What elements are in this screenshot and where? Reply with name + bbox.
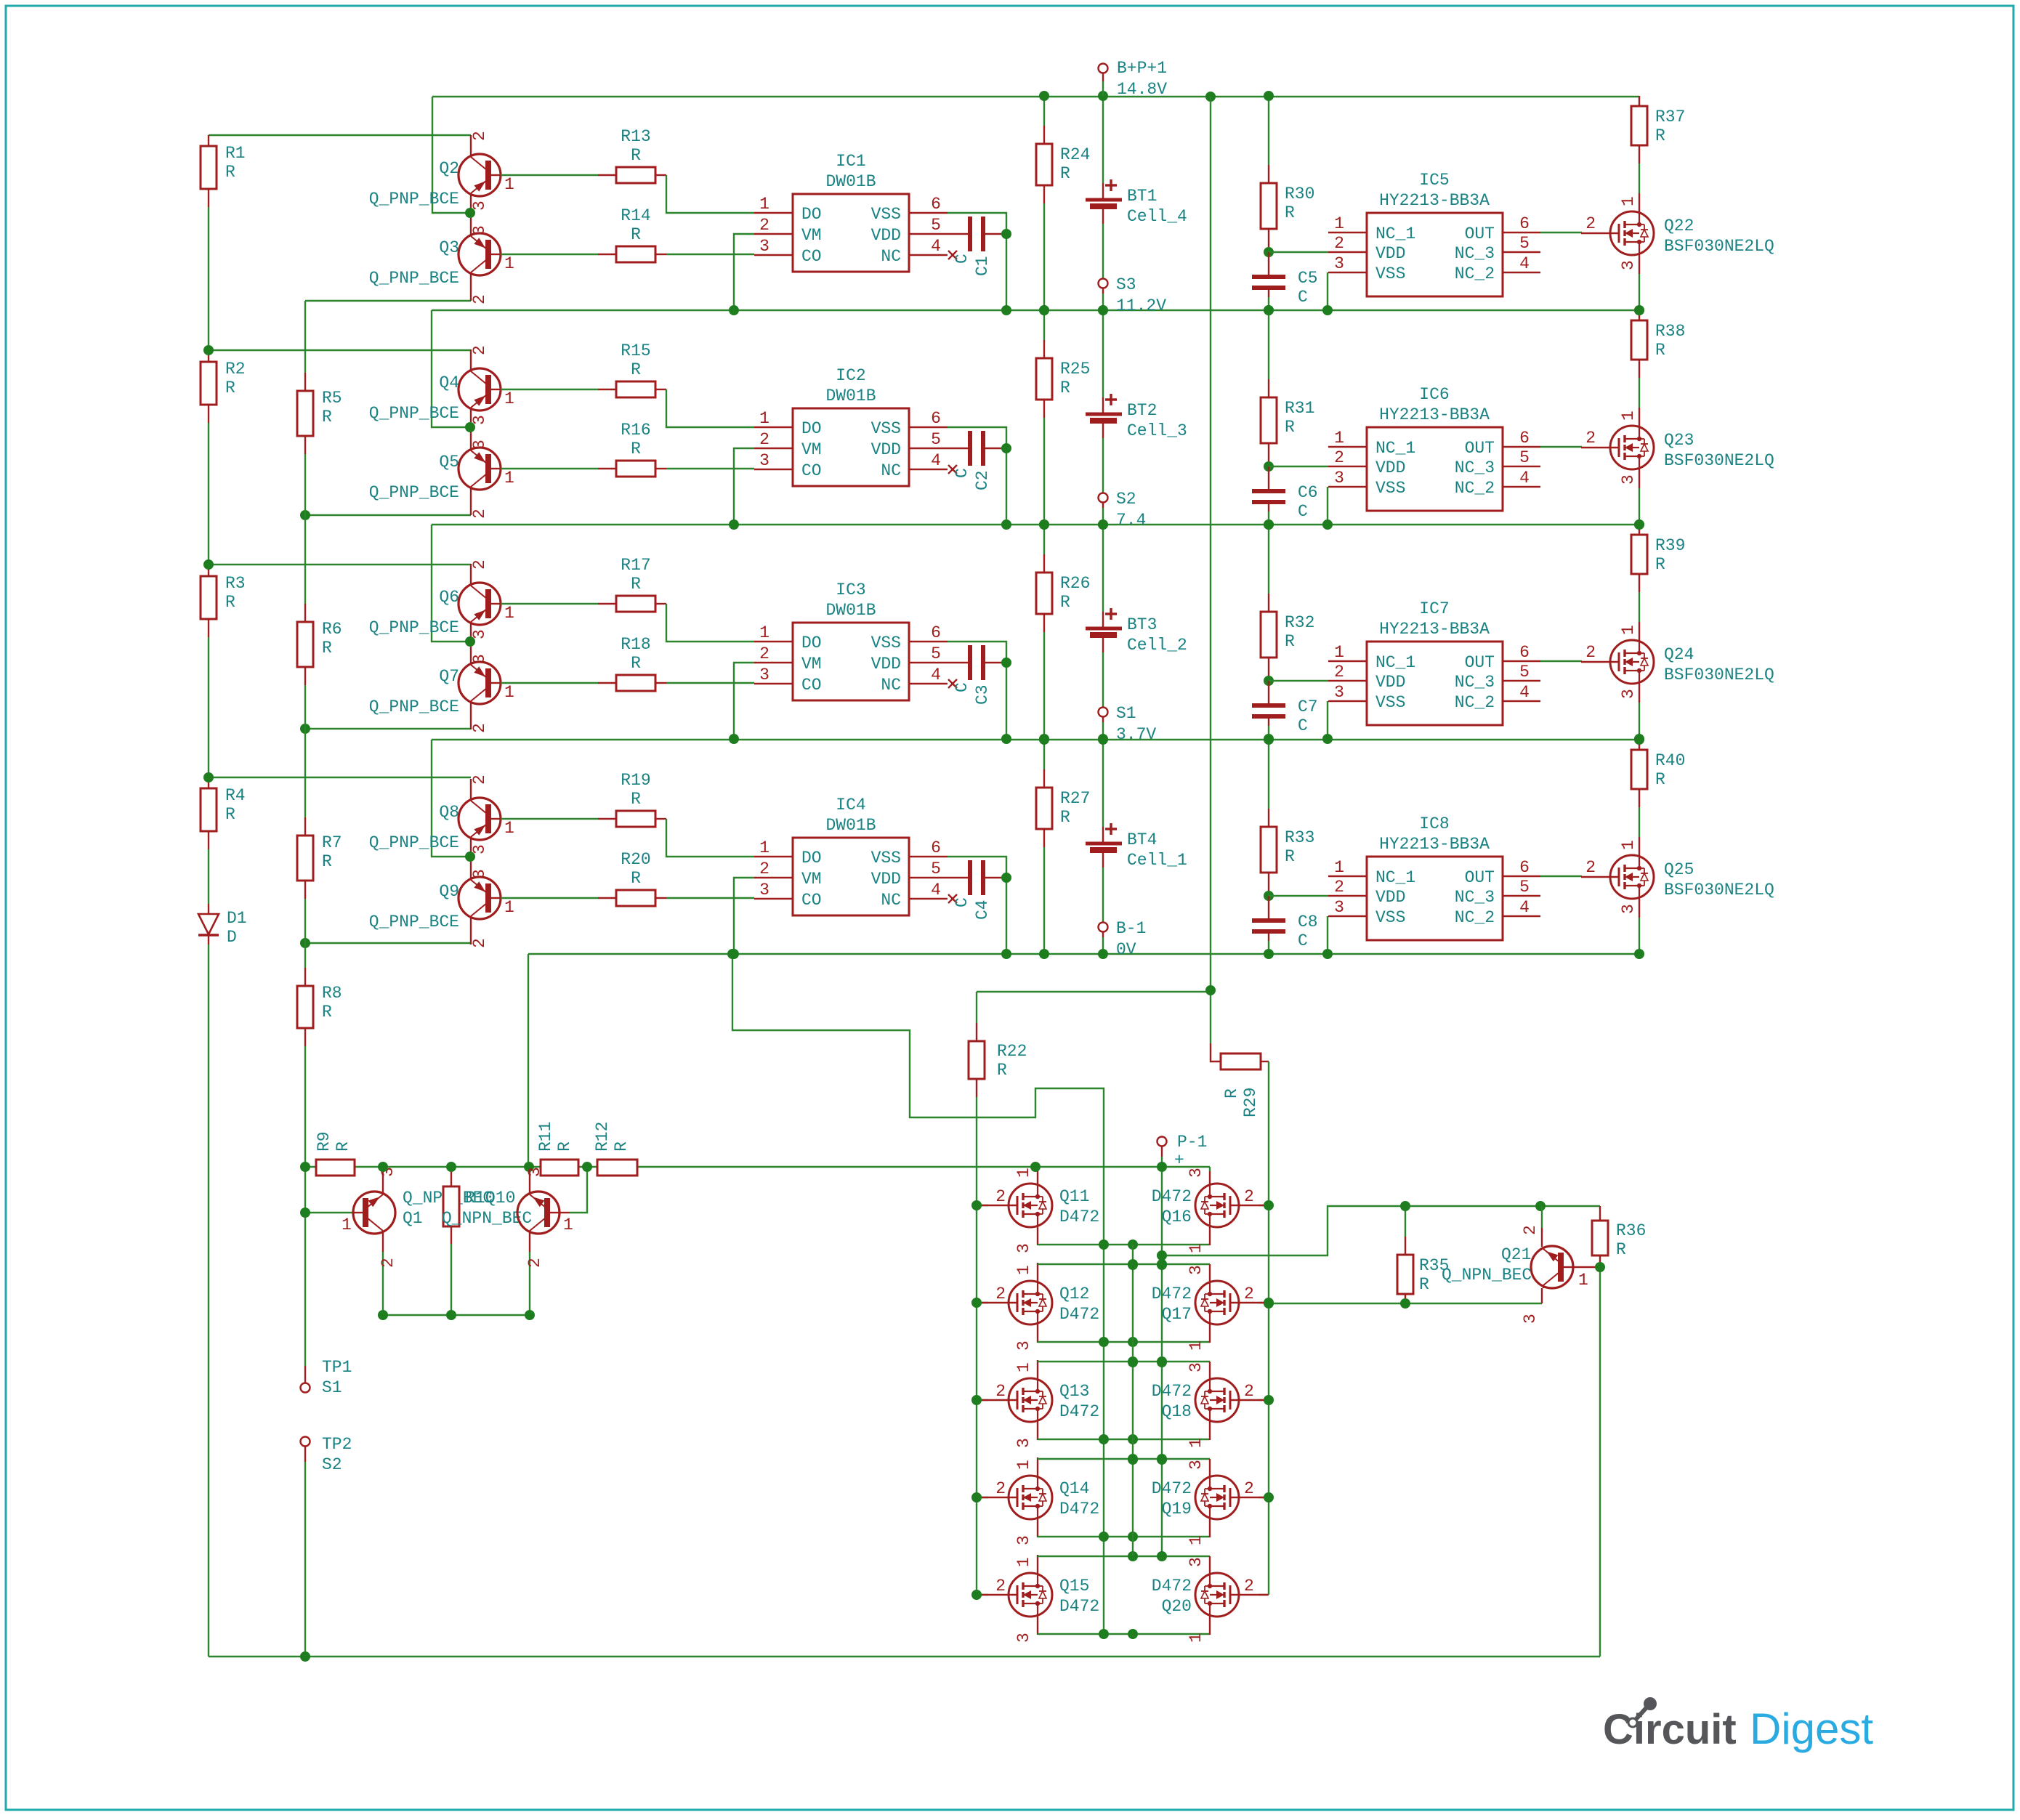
svg-text:R9: R9: [315, 1131, 334, 1152]
svg-text:NC: NC: [881, 247, 901, 266]
wire IC3 VSS to rail riser: [948, 642, 1006, 739]
svg-text:D472: D472: [1152, 1479, 1192, 1498]
svg-text:DW01B: DW01B: [825, 816, 876, 835]
svg-text:R: R: [1655, 126, 1665, 145]
svg-text:Q25: Q25: [1664, 860, 1694, 879]
svg-text:B-1: B-1: [1116, 919, 1146, 938]
capacitor C1: [948, 233, 970, 235]
resistor R38: [1631, 320, 1647, 360]
junction R39 top rail: [1634, 519, 1644, 530]
svg-text:CO: CO: [801, 461, 822, 480]
wire R5 leads: [304, 301, 306, 373]
svg-text:3: 3: [1187, 1557, 1205, 1567]
wire R31 leads: [1268, 310, 1269, 379]
wire Q9 base to R20: [501, 897, 598, 899]
svg-text:HY2213-BB3A: HY2213-BB3A: [1379, 191, 1490, 210]
svg-text:3: 3: [1187, 1460, 1205, 1470]
resistor R32: [1261, 612, 1277, 658]
junction Q11 drain bus: [1030, 1162, 1041, 1172]
junction B- riser at bus: [524, 1162, 534, 1172]
junction R1/R2 feed: [203, 345, 214, 355]
svg-text:3: 3: [1014, 1438, 1033, 1448]
ic IC6 HY2213-BB3A: [1367, 427, 1503, 511]
svg-text:D472: D472: [1152, 1577, 1192, 1595]
junction gate bus Q14: [971, 1492, 982, 1502]
junction row bottom line: [1099, 1434, 1109, 1444]
junction IC7 VSS rail: [1322, 734, 1333, 744]
svg-text:VDD: VDD: [1375, 244, 1405, 263]
svg-text:R: R: [322, 408, 332, 426]
junction x1599 drive tap: [1157, 1250, 1167, 1261]
svg-text:14.8V: 14.8V: [1117, 80, 1167, 99]
junction gate bus Q19: [1264, 1492, 1274, 1502]
resistor R4: [201, 788, 217, 831]
junction B-1 rail: [1098, 949, 1108, 959]
svg-text:3: 3: [470, 654, 489, 664]
svg-text:3: 3: [1521, 1314, 1540, 1324]
svg-text:D472: D472: [1059, 1305, 1099, 1324]
svg-text:1: 1: [1578, 1271, 1588, 1290]
junction R5/Q5 collector: [300, 510, 310, 520]
junction row top line: [1128, 1454, 1138, 1464]
svg-text:Q8: Q8: [439, 803, 459, 822]
svg-text:+: +: [1174, 1151, 1184, 1170]
resistor R35: [1405, 1206, 1406, 1237]
svg-text:Q5: Q5: [439, 453, 459, 472]
wire B-1 rail: [528, 953, 1639, 955]
no-connect IC1 NC: [948, 251, 957, 259]
junction R25 bottom: [1039, 519, 1049, 530]
svg-text:2: 2: [1585, 214, 1596, 233]
wire R26 leads: [1043, 525, 1045, 554]
svg-text:R: R: [322, 639, 332, 658]
svg-text:Digest: Digest: [1750, 1704, 1873, 1753]
resistor R11: [541, 1160, 578, 1176]
transistor Q1: [353, 1170, 395, 1234]
svg-text:Q4: Q4: [439, 373, 459, 392]
svg-text:VDD: VDD: [871, 655, 901, 674]
svg-text:1: 1: [504, 175, 514, 194]
junction IC5 VSS rail: [1322, 305, 1333, 315]
svg-text:R38: R38: [1655, 322, 1685, 341]
junction C7 rail: [1264, 734, 1274, 744]
junction R25 top: [1039, 305, 1049, 315]
svg-text:VM: VM: [801, 655, 822, 674]
junction R6/Q7 collector: [300, 724, 310, 734]
wire row line y1847 (Q12 source / Q17 bottom): [1037, 1324, 1038, 1343]
junction row bottom line: [1099, 1239, 1109, 1250]
svg-text:Q21: Q21: [1501, 1245, 1531, 1264]
svg-text:R: R: [1285, 418, 1295, 437]
junction R32 top rail: [1264, 519, 1274, 530]
svg-text:1: 1: [504, 683, 514, 702]
wire R24 leads: [1043, 96, 1045, 126]
svg-text:Q2: Q2: [439, 159, 459, 178]
junction R2/R3 feed: [203, 559, 214, 570]
svg-text:Q12: Q12: [1059, 1285, 1089, 1303]
junction VSS rail: [1001, 519, 1011, 530]
resistor R27: [1036, 788, 1052, 829]
transistor Q19: [1259, 1497, 1269, 1498]
svg-text:4: 4: [931, 666, 941, 684]
svg-text:2: 2: [1585, 643, 1596, 662]
resistor R1: [201, 146, 217, 189]
svg-text:NC_2: NC_2: [1455, 479, 1495, 498]
svg-text:VSS: VSS: [1375, 693, 1405, 712]
svg-text:6: 6: [1519, 214, 1530, 233]
wire Q7 base to R18: [501, 682, 598, 684]
svg-text:2: 2: [1244, 1285, 1254, 1303]
junction VM rail: [729, 305, 739, 315]
wire B- to source bus path: [732, 954, 1104, 1634]
svg-text:1: 1: [504, 469, 514, 488]
junction R10 top: [446, 1162, 456, 1172]
transistor Q5: [458, 427, 501, 515]
diode D1: [208, 904, 209, 914]
wire gate bus right column: [1268, 1061, 1269, 1595]
wire R1 leads: [208, 135, 209, 146]
svg-text:R8: R8: [322, 984, 342, 1003]
svg-text:CO: CO: [801, 891, 822, 910]
svg-text:R36: R36: [1616, 1221, 1646, 1240]
svg-text:R: R: [1222, 1088, 1241, 1099]
transistor Q2: [458, 135, 501, 213]
svg-text:Cell_3: Cell_3: [1127, 421, 1187, 440]
svg-text:NC_1: NC_1: [1375, 225, 1415, 243]
svg-text:Q_PNP_BCE: Q_PNP_BCE: [369, 833, 459, 852]
wire S2 left drop to emitter node: [432, 525, 470, 642]
svg-text:1: 1: [1334, 643, 1344, 662]
wire IC2 VM to rail: [734, 448, 754, 525]
resistor R30: [1261, 183, 1277, 229]
wire row line y2115 (Q14 source / Q19 bottom): [1037, 1519, 1038, 1537]
svg-text:1: 1: [759, 623, 769, 642]
ic IC8 HY2213-BB3A: [1367, 857, 1503, 940]
junction Q25 source rail: [1634, 949, 1644, 959]
battery BT1: [1102, 96, 1104, 183]
svg-text:R: R: [225, 379, 235, 397]
svg-text:VM: VM: [801, 870, 822, 889]
wire row line y1740 (Q12 drain / Q17 top): [1037, 1263, 1038, 1281]
junction R33 top rail: [1264, 735, 1274, 745]
svg-text:C: C: [1298, 502, 1308, 521]
wire row line y2249 (Q15 source / Q20 bottom): [1037, 1617, 1038, 1635]
resistor R16: [616, 461, 655, 477]
node S2: [1099, 493, 1108, 503]
svg-text:Q6: Q6: [439, 588, 459, 607]
wire feed line row4 (R4 top to Q8 collector): [209, 777, 471, 778]
svg-text:NC_1: NC_1: [1375, 868, 1415, 887]
wire IC1 VM to rail: [734, 234, 754, 310]
svg-text:VDD: VDD: [1375, 888, 1405, 907]
svg-text:R27: R27: [1060, 789, 1090, 808]
junction S3 rail: [1098, 305, 1108, 315]
svg-text:D: D: [227, 928, 237, 947]
battery BT3: [1102, 525, 1104, 612]
wire IC7 OUT to Q24 gate: [1540, 660, 1582, 662]
svg-text:DO: DO: [801, 205, 822, 224]
svg-text:BT1: BT1: [1127, 187, 1157, 206]
junction gate line R35: [1400, 1298, 1410, 1309]
svg-text:2: 2: [759, 644, 769, 663]
svg-text:2: 2: [470, 345, 489, 355]
junction R27 bottom: [1039, 949, 1049, 959]
ic IC2 DW01B: [793, 408, 909, 486]
svg-text:D472: D472: [1059, 1402, 1099, 1421]
wire S1 left drop to emitter node: [432, 740, 470, 857]
svg-text:4: 4: [1519, 469, 1530, 488]
svg-text:2: 2: [995, 1187, 1006, 1206]
wire Q21 base to R36 bottom and down: [1573, 1266, 1600, 1268]
junction row top line: [1128, 1259, 1138, 1269]
capacitor C5: [1268, 252, 1269, 275]
wire Q11 drain stub to bus: [1037, 1167, 1038, 1185]
junction row bottom line: [1099, 1337, 1109, 1347]
resistor R5: [297, 391, 313, 436]
svg-text:NC_3: NC_3: [1455, 888, 1495, 907]
svg-text:R22: R22: [997, 1042, 1027, 1061]
svg-text:S1: S1: [322, 1378, 342, 1397]
svg-text:C4: C4: [973, 899, 992, 920]
svg-text:R: R: [334, 1141, 352, 1152]
svg-text:OUT: OUT: [1465, 653, 1495, 672]
wire R14 to IC1 CO: [655, 254, 666, 255]
svg-text:DO: DO: [801, 849, 822, 867]
junction R24 top: [1039, 91, 1049, 101]
transistor Q17: [1259, 1302, 1269, 1303]
svg-text:IC6: IC6: [1419, 385, 1449, 404]
logo CircuitDigest: [1603, 1704, 1873, 1753]
svg-text:5: 5: [1519, 878, 1530, 897]
svg-text:S1: S1: [1116, 704, 1136, 723]
svg-text:2: 2: [1334, 878, 1344, 897]
svg-text:TP2: TP2: [322, 1435, 352, 1454]
svg-text:R20: R20: [621, 850, 650, 869]
transistor Q12: [977, 1302, 988, 1303]
wire x1666 riser from B+ down to R29: [1210, 97, 1211, 1043]
svg-text:1: 1: [504, 389, 514, 408]
junction C4 / VSS riser: [1001, 873, 1011, 883]
svg-text:C: C: [953, 468, 971, 478]
transistor Q10: [517, 1170, 559, 1234]
transistor Q25: [1639, 837, 1640, 856]
svg-text:R12: R12: [593, 1122, 612, 1152]
transistor Q11: [977, 1205, 988, 1206]
svg-text:D472: D472: [1059, 1500, 1099, 1518]
resistor R12: [597, 1160, 637, 1176]
svg-text:1: 1: [342, 1216, 352, 1234]
wire row line y1981 (Q13 source / Q18 bottom): [1037, 1422, 1038, 1440]
svg-text:VSS: VSS: [1375, 264, 1405, 283]
svg-text:VDD: VDD: [871, 440, 901, 459]
svg-text:2: 2: [470, 294, 489, 304]
svg-text:NC_2: NC_2: [1455, 264, 1495, 283]
svg-text:Q_PNP_BCE: Q_PNP_BCE: [369, 697, 459, 716]
wire Q3 base to R14: [501, 254, 598, 255]
svg-text:R11: R11: [536, 1122, 555, 1152]
no-connect IC3 NC: [948, 679, 957, 688]
wire R19 to IC4 DO: [655, 818, 666, 820]
svg-text:2: 2: [1521, 1225, 1540, 1235]
svg-text:6: 6: [1519, 858, 1530, 877]
resistor R29: [1221, 1053, 1261, 1069]
svg-text:3: 3: [1334, 683, 1344, 702]
svg-text:1: 1: [1187, 1340, 1205, 1351]
svg-text:R: R: [631, 790, 641, 809]
svg-text:HY2213-BB3A: HY2213-BB3A: [1379, 620, 1490, 639]
junction Q24 source rail: [1634, 734, 1644, 744]
svg-text:1: 1: [1187, 1438, 1205, 1448]
junction battery top rail: [1098, 519, 1108, 530]
svg-text:DW01B: DW01B: [825, 601, 876, 620]
svg-text:4: 4: [1519, 898, 1530, 917]
transistor Q9: [458, 857, 501, 945]
svg-text:D472: D472: [1152, 1382, 1192, 1401]
svg-text:R: R: [631, 654, 641, 673]
svg-text:S3: S3: [1116, 275, 1136, 294]
svg-text:3: 3: [1014, 1243, 1033, 1253]
transistor Q21: [1541, 1206, 1543, 1228]
transistor Q20: [1259, 1594, 1269, 1595]
svg-text:4: 4: [931, 881, 941, 899]
svg-text:R37: R37: [1655, 108, 1685, 126]
svg-text:2: 2: [1334, 448, 1344, 467]
svg-text:C3: C3: [973, 684, 992, 705]
svg-text:R: R: [631, 440, 641, 458]
svg-text:HY2213-BB3A: HY2213-BB3A: [1379, 405, 1490, 424]
svg-text:R6: R6: [322, 620, 342, 639]
svg-text:D472: D472: [1152, 1285, 1192, 1303]
svg-text:2: 2: [470, 938, 489, 948]
junction R26 bottom: [1039, 734, 1049, 744]
wire R39 leads: [1639, 525, 1640, 535]
svg-text:Cell_1: Cell_1: [1127, 851, 1187, 870]
svg-text:R24: R24: [1060, 145, 1090, 164]
wire row line y1713 (Q11 source / Q16 bottom): [1037, 1227, 1038, 1245]
transistor Q8: [458, 779, 501, 857]
junction gate bus Q12: [971, 1298, 982, 1308]
wire R40 leads: [1639, 740, 1640, 750]
ic IC4 DW01B: [793, 838, 909, 915]
junction Q2/Q3 emitters: [465, 208, 475, 218]
svg-text:R: R: [631, 146, 641, 165]
transistor Q18: [1259, 1399, 1269, 1401]
wire R18 to IC3 CO: [655, 682, 666, 684]
svg-text:C6: C6: [1298, 483, 1318, 502]
svg-text:R40: R40: [1655, 751, 1685, 770]
svg-text:Cell_4: Cell_4: [1127, 207, 1187, 226]
capacitor C2: [948, 448, 970, 449]
svg-text:NC: NC: [881, 891, 901, 910]
svg-text:5: 5: [1519, 234, 1530, 253]
resistor R14: [616, 246, 655, 262]
svg-text:4: 4: [1519, 254, 1530, 273]
svg-text:4: 4: [931, 451, 941, 470]
junction IC8 VSS rail: [1322, 949, 1333, 959]
svg-text:R: R: [1285, 203, 1295, 222]
transistor Q16: [1259, 1205, 1269, 1206]
svg-text:Cell_2: Cell_2: [1127, 636, 1187, 655]
svg-text:Q9: Q9: [439, 882, 459, 901]
resistor R17: [616, 596, 655, 612]
svg-text:4: 4: [931, 237, 941, 256]
svg-text:R25: R25: [1060, 360, 1090, 379]
resistor R6: [297, 622, 313, 667]
resistor R22: [976, 992, 977, 1023]
svg-text:3: 3: [1014, 1535, 1033, 1545]
wire IC7 VSS to rail: [1327, 701, 1328, 739]
junction VSS rail: [1001, 949, 1011, 959]
junction R22 feed: [1205, 985, 1216, 995]
svg-text:3: 3: [1187, 1362, 1205, 1372]
svg-text:R: R: [631, 225, 641, 244]
svg-text:NC: NC: [881, 461, 901, 480]
svg-text:NC_1: NC_1: [1375, 653, 1415, 672]
svg-text:1: 1: [759, 409, 769, 428]
svg-text:CO: CO: [801, 676, 822, 695]
svg-text:1: 1: [1014, 1557, 1033, 1567]
junction R35 top: [1400, 1201, 1410, 1211]
svg-text:OUT: OUT: [1465, 868, 1495, 887]
wire drive line to R36: [1540, 1205, 1600, 1207]
svg-text:11.2V: 11.2V: [1116, 296, 1166, 315]
junction C3 / VSS riser: [1001, 658, 1011, 668]
junction Q10 base riser at bus: [582, 1162, 592, 1172]
svg-text:BSF030NE2LQ: BSF030NE2LQ: [1664, 237, 1774, 256]
svg-text:TP1: TP1: [322, 1358, 352, 1377]
svg-text:R14: R14: [621, 206, 650, 225]
junction R32 / C7 / VDD: [1264, 676, 1274, 686]
wire S1 rail: [432, 739, 1639, 740]
svg-text:VDD: VDD: [871, 226, 901, 245]
svg-text:1: 1: [563, 1216, 573, 1234]
svg-text:1: 1: [504, 604, 514, 623]
svg-text:Q_PNP_BCE: Q_PNP_BCE: [369, 404, 459, 423]
svg-text:R30: R30: [1285, 185, 1314, 203]
svg-text:Q24: Q24: [1664, 645, 1694, 664]
svg-text:R: R: [1285, 847, 1295, 866]
junction IC6 VSS rail: [1322, 519, 1333, 530]
svg-text:NC_2: NC_2: [1455, 908, 1495, 927]
wire R20 to IC4 CO: [655, 897, 666, 899]
svg-text:Q22: Q22: [1664, 217, 1694, 235]
junction Q1 base: [300, 1208, 310, 1218]
wire feed line row1 (R1 top to Q2 collector): [209, 134, 471, 136]
svg-text:CO: CO: [801, 247, 822, 266]
junction S1 rail: [1098, 734, 1108, 744]
wire gate bus left column: [976, 1097, 977, 1595]
junction R30 / C5 / VDD: [1264, 247, 1274, 257]
wire IC3 VM to rail: [734, 663, 754, 739]
svg-text:3: 3: [759, 881, 769, 899]
svg-text:DO: DO: [801, 634, 822, 652]
junction Q1 collector bus: [378, 1162, 388, 1172]
transistor Q4: [458, 349, 501, 427]
svg-text:VDD: VDD: [1375, 673, 1405, 692]
svg-text:3: 3: [1619, 904, 1638, 914]
wire gate line to Q21 emitter: [1269, 1303, 1542, 1304]
resistor R19: [616, 811, 655, 827]
svg-text:R: R: [1060, 164, 1070, 183]
junction gate bus Q11: [971, 1200, 982, 1210]
svg-text:1: 1: [1619, 196, 1638, 206]
resistor R36: [1599, 1206, 1601, 1221]
wire IC6 VSS to rail: [1327, 487, 1328, 525]
wire Q5 base to R16: [501, 468, 598, 469]
svg-text:Q_NPN_BEC: Q_NPN_BEC: [1442, 1266, 1532, 1285]
svg-text:2: 2: [1244, 1382, 1254, 1401]
transistor Q22: [1639, 193, 1640, 212]
